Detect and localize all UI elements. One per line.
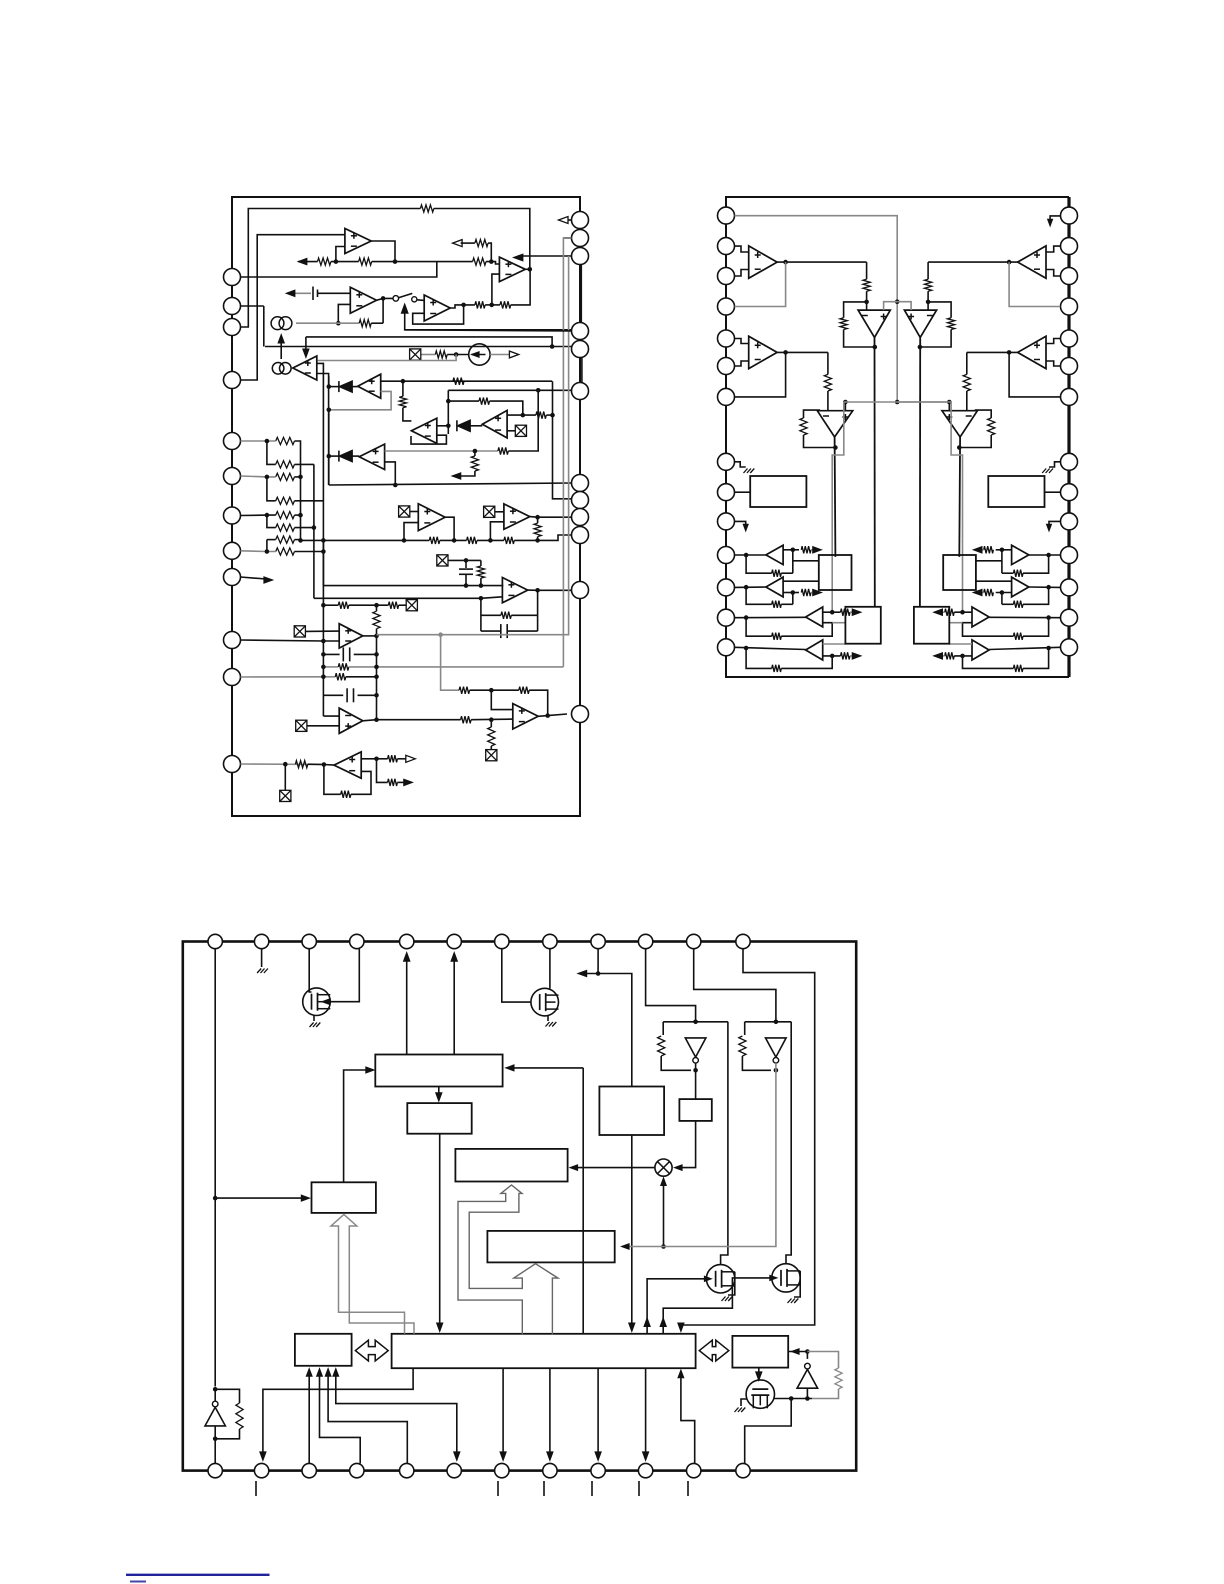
op-amp U8 — [482, 410, 507, 438]
wire pin11 (left) — [735, 554, 766, 556]
pin lead tick — [591, 1481, 593, 1496]
wire fb in — [441, 635, 460, 691]
junction — [265, 549, 270, 554]
IC3 pin T3 — [302, 934, 316, 948]
junction — [957, 445, 962, 450]
op-amp U23 (right) — [1018, 336, 1046, 368]
wire cap to arrow — [292, 292, 311, 294]
wire S1 vert (right) — [1001, 550, 1003, 573]
wire (right) — [978, 592, 984, 594]
wire pin L7 — [241, 514, 276, 516]
arrow A2 — [453, 240, 463, 247]
terminal X8 — [296, 720, 307, 731]
arrow mult-in — [675, 1165, 683, 1171]
arrow B7 — [500, 1452, 506, 1461]
wire pin12 (right) — [1029, 586, 1060, 588]
IC1 pin L12 — [224, 756, 241, 773]
junction — [374, 675, 379, 680]
wire DB to pin B9 — [597, 1368, 599, 1457]
resistor R10 — [453, 378, 464, 385]
resistor R58 (left) — [772, 633, 782, 640]
junction — [789, 1396, 794, 1401]
wire mult bottom — [663, 1180, 665, 1247]
power amp U22 (right) — [904, 310, 936, 337]
wire INV2 gray down — [625, 1063, 776, 1246]
resistor R9 — [435, 351, 447, 358]
wire ref bus — [844, 401, 951, 403]
wire — [465, 574, 467, 585]
junction — [473, 449, 478, 454]
IC3 pin T1 — [208, 934, 222, 948]
wire MB1 down to DB — [631, 1135, 633, 1328]
ground G14 — [788, 1299, 799, 1304]
junction — [693, 1020, 698, 1025]
wire fb — [529, 690, 548, 715]
ground G10 — [257, 969, 268, 974]
wire — [465, 560, 467, 568]
arrow B3 — [306, 1369, 312, 1377]
junction — [895, 400, 900, 405]
ground G11 — [310, 1023, 321, 1028]
wire — [806, 1352, 808, 1359]
arrow mult-P — [570, 1165, 578, 1171]
IC2 pin L11 — [718, 547, 735, 564]
diode D3 — [339, 450, 353, 462]
resistor R39 — [461, 716, 472, 723]
wire DC1 node — [296, 322, 359, 324]
IC2 pin R7 — [1061, 388, 1078, 405]
wire U12 out pin R11 — [528, 589, 572, 591]
junction — [535, 538, 540, 543]
wire pin L1 centre ref — [735, 216, 898, 402]
IC2 pin L3 — [718, 268, 735, 285]
IC1 pin L7 — [224, 507, 241, 524]
junction — [528, 267, 533, 272]
pin lead tick — [687, 1481, 689, 1496]
IC2 pin R13 — [1061, 609, 1078, 626]
IC2 pin R10 — [1061, 513, 1078, 530]
wire — [349, 604, 389, 606]
wire pin13 (left) — [735, 616, 806, 618]
diode D1 — [339, 381, 353, 393]
wire col right2 — [295, 500, 324, 502]
junction — [805, 1396, 810, 1401]
wire U12 - row — [314, 597, 503, 599]
terminal X9 — [486, 750, 497, 761]
wire DB to pin B8 — [549, 1368, 551, 1457]
arrow T9 — [578, 970, 587, 976]
IC3 pin T10 — [638, 934, 652, 948]
wire U4 out — [450, 305, 475, 308]
resistor R57 (right) — [984, 589, 994, 596]
resistor R5 — [475, 240, 488, 247]
wire U23 out (right) — [967, 351, 1018, 353]
op-amp U7 — [411, 418, 436, 443]
resistor R11 — [399, 396, 406, 407]
wire INV4 out — [806, 1388, 808, 1398]
wire res loop — [215, 1389, 239, 1403]
arrow A11 — [406, 755, 416, 762]
resistor R56 (left) — [772, 601, 782, 608]
resistor R55 (left) — [801, 546, 811, 553]
resistor R60 (right) — [1013, 665, 1023, 672]
pin lead tick — [638, 1481, 640, 1496]
wire pin T7 to M2 gate — [502, 949, 531, 1002]
junction — [322, 762, 327, 767]
capacitor C3 — [501, 624, 507, 638]
junction — [947, 400, 952, 405]
wire res loop — [807, 1352, 838, 1369]
op-amp U26 (right) — [1012, 577, 1029, 597]
IC2 pin R8 — [1061, 453, 1078, 470]
wire S2 vert (left) — [792, 593, 794, 605]
wire — [329, 455, 339, 457]
resistor R4 — [473, 258, 486, 265]
arrow B4 — [317, 1369, 323, 1377]
wire pin5 to + (right) — [1046, 339, 1060, 344]
ground G12 — [546, 1022, 557, 1027]
wire pin L2 row — [265, 346, 572, 348]
wire BB1 to pin T6 — [453, 956, 455, 1055]
IC2 pin R14 — [1061, 639, 1078, 656]
arrow A3 — [514, 254, 523, 261]
resistor R20 — [276, 437, 295, 444]
op-amp U2 — [499, 257, 525, 282]
wire S3 loop (left) — [746, 618, 772, 637]
op-amp U25 (right) — [1012, 545, 1029, 564]
resistor R35 — [388, 602, 398, 609]
wire INV1 top row — [663, 1021, 728, 1023]
wire pin T11 to INV2 — [694, 949, 776, 1022]
junction — [693, 1068, 698, 1073]
resistor R58 (right) — [1013, 633, 1023, 640]
wire U9 + row — [385, 450, 498, 452]
wire U3 - — [338, 304, 350, 323]
IC1 pin L1 — [224, 269, 241, 286]
wire U10 - — [404, 523, 418, 541]
IC3 pin B12 — [736, 1463, 750, 1477]
wire — [324, 764, 334, 767]
IC1 pin R2 — [572, 230, 589, 247]
wire col — [267, 477, 276, 501]
wire S1 vert (left) — [792, 550, 794, 573]
wire pin T2 — [261, 949, 263, 967]
resistor R31 — [534, 523, 541, 536]
op-amp U11 — [504, 504, 530, 529]
terminal X5 — [437, 555, 448, 566]
wire SB1 to BB1 — [344, 1070, 371, 1182]
IC1 pin R9 — [572, 509, 589, 526]
wire + to ref bus (right) — [948, 402, 950, 411]
wire — [284, 764, 286, 790]
IC3 pin T6 — [447, 934, 461, 948]
wire DB to M3 gate — [647, 1279, 706, 1334]
arrow T6 — [451, 953, 457, 962]
wire S4 out row (left) — [823, 655, 841, 657]
junction — [791, 548, 796, 553]
junction — [374, 693, 379, 698]
op-amp U1 — [345, 229, 371, 254]
wire SEC to pin B4 — [320, 1370, 361, 1464]
IC3 pin B2 — [254, 1463, 268, 1477]
wire U8 - — [507, 430, 515, 432]
wire fb (right) — [975, 410, 992, 418]
IC2 pin R11 — [1061, 547, 1078, 564]
IC3 pin B11 — [687, 1463, 701, 1477]
capacitor C2 — [459, 569, 473, 574]
arrow pin10 (right) — [1047, 524, 1052, 531]
IC3 outline — [183, 942, 856, 1471]
wire — [346, 676, 377, 678]
junction — [265, 475, 270, 480]
wire pin L3 to feedback — [241, 209, 421, 328]
arrow B5 — [325, 1369, 331, 1377]
junction — [298, 538, 303, 543]
wire S1 to B2 (left) — [793, 560, 819, 562]
wire diode node vert — [447, 390, 449, 434]
resistor R29 — [467, 537, 477, 544]
resistor R22 — [276, 473, 295, 480]
arrow into SB1 — [301, 1195, 309, 1201]
wire pin13 (right) — [989, 616, 1060, 618]
wire CS1 out — [490, 354, 511, 356]
block Q — [487, 1231, 614, 1263]
op-amp U5 — [293, 356, 317, 380]
IC2 pin R9 — [1061, 484, 1078, 501]
resistor R72 — [236, 1403, 243, 1429]
IC3 pin B3 — [302, 1463, 316, 1477]
wire — [448, 559, 481, 561]
wire — [470, 689, 519, 691]
wire node — [328, 376, 330, 386]
wire U11 - — [490, 522, 504, 541]
arrow T5 — [404, 953, 410, 962]
junction — [461, 303, 466, 308]
wire M5 row — [775, 1398, 813, 1400]
resistor R51 (left) — [840, 318, 847, 330]
resistor R44 — [341, 791, 351, 798]
IC3 pin T2 — [254, 934, 268, 948]
wire — [488, 243, 491, 262]
IC1 outline — [232, 197, 580, 816]
arrow T12-DB — [678, 1323, 684, 1332]
junction — [489, 303, 494, 308]
wire — [397, 781, 404, 783]
wire U7 hook — [411, 435, 446, 444]
wire row667 gray — [349, 666, 564, 668]
MOSFET M1 — [303, 988, 331, 1016]
wire (right) — [966, 391, 968, 411]
wire — [308, 763, 324, 765]
resistor R24 — [276, 512, 295, 519]
wire (left) — [866, 291, 868, 310]
wire DB to M4 gate — [663, 1278, 771, 1334]
block B1 (left) — [750, 476, 806, 507]
resistor R40 — [459, 687, 470, 694]
IC2 pin R12 — [1061, 579, 1078, 596]
junction — [545, 713, 550, 718]
arrow into Q — [622, 1244, 630, 1250]
arrow A4 — [286, 290, 295, 296]
wire S2 vert (right) — [1001, 593, 1003, 605]
wire pin R3 ctl — [518, 255, 572, 257]
wire pin T9 — [597, 949, 599, 974]
wire (left) — [827, 352, 829, 374]
wire S2 to B2 (right) — [976, 580, 1012, 582]
wire — [480, 578, 482, 586]
resistor R56 (right) — [1013, 601, 1023, 608]
arrow into BB1 r — [506, 1065, 514, 1071]
arrow A8 — [509, 351, 518, 358]
wire S1 to B2 (right) — [976, 560, 1002, 562]
wire fb row — [448, 400, 479, 402]
IC2 pin L10 — [718, 513, 735, 530]
wire + to centre (right) — [897, 302, 911, 310]
wire mirror arrow — [280, 338, 282, 359]
junction — [464, 583, 469, 588]
wire S4 to B3 (left) — [823, 643, 846, 645]
wire — [329, 386, 339, 388]
junction — [783, 260, 788, 265]
resistor R36 — [373, 611, 380, 629]
wire — [490, 401, 523, 415]
wire pin B3 to SEC — [308, 1370, 310, 1463]
wire T9 to MB1 — [583, 974, 632, 1087]
wire to pin R6 — [448, 389, 571, 391]
resistor R52 (left) — [824, 374, 831, 391]
arrow B11 — [678, 1370, 684, 1378]
wire S3 loop up (left) — [781, 623, 832, 637]
junction — [744, 553, 749, 558]
wire pin T12 route — [681, 949, 815, 1330]
wire gray return 1 — [563, 238, 571, 667]
junction — [381, 296, 386, 301]
block RB — [732, 1336, 788, 1368]
resistor R55 (right) — [984, 546, 994, 553]
wire U8 out — [507, 414, 536, 416]
junction — [327, 408, 332, 413]
junction — [1046, 615, 1051, 620]
wire fb left — [480, 598, 482, 631]
block B3 (right) — [914, 607, 949, 644]
resistor R61 (right) — [945, 652, 955, 659]
op-amp U28 (left) — [806, 640, 823, 660]
wire arrow to R2 — [298, 261, 317, 263]
IC3 pin T12 — [736, 934, 750, 948]
wire U16 fb — [324, 765, 341, 795]
junction — [744, 615, 749, 620]
IC2 right edge — [1067, 197, 1070, 677]
arrow pin R1 — [559, 217, 569, 224]
junction — [1007, 260, 1012, 265]
diode D2 — [457, 420, 471, 432]
wire pin L9 — [241, 577, 267, 579]
wire — [397, 758, 406, 760]
IC1 pin R10 — [572, 527, 589, 544]
arrow S4 (left) — [852, 653, 861, 659]
IC1 pin R5 — [572, 341, 589, 358]
junction — [393, 483, 398, 488]
IC1 pin R1 — [572, 212, 589, 229]
wire S2 out row (right) — [996, 592, 1012, 594]
junction — [1000, 590, 1005, 595]
arrow S1 (right) — [973, 547, 982, 553]
junction — [213, 1387, 218, 1392]
wire — [358, 694, 377, 696]
resistor R41 — [519, 687, 529, 694]
inverter INV2 — [766, 1038, 787, 1063]
wire to U7 tip — [403, 408, 412, 421]
wire pin T3 gate — [309, 949, 311, 992]
resistor R46 — [388, 779, 398, 786]
IC3 pin B9 — [591, 1463, 605, 1477]
junction — [479, 596, 484, 601]
op-amp U9 — [359, 444, 384, 469]
wire — [377, 758, 388, 760]
wire res loop — [812, 1389, 839, 1399]
wire U6 hook — [329, 391, 391, 409]
arrow S4 (right) — [934, 653, 943, 659]
resistor R15 — [471, 456, 478, 471]
wire U13 out gray — [377, 634, 441, 636]
footer rule 2 — [130, 1581, 146, 1583]
wire pin L2 — [241, 305, 264, 307]
junction — [321, 675, 326, 680]
wire col — [267, 441, 276, 464]
terminal X7 — [294, 626, 305, 637]
junction — [805, 1349, 810, 1354]
wire INV2 right to M4 — [786, 1022, 791, 1264]
op-amp U23 (left) — [749, 336, 777, 368]
wire S3 loop (right) — [1023, 618, 1049, 637]
wire — [458, 471, 475, 476]
arrow into BB1 l — [366, 1067, 374, 1073]
resistor R38 — [335, 673, 346, 680]
wire cap row2 — [323, 694, 343, 696]
wire U15 + — [491, 690, 513, 709]
junction — [536, 388, 541, 393]
wire — [481, 630, 501, 632]
junction — [374, 652, 379, 657]
wire U2 out — [525, 268, 530, 270]
resistor R37 — [338, 663, 349, 670]
wire — [377, 759, 388, 783]
op-amp U6 — [358, 374, 381, 398]
current source arrow line — [472, 354, 486, 356]
IC3 pin T7 — [495, 934, 509, 948]
MOSFET M4 — [772, 1264, 800, 1292]
wire fb (right) — [928, 302, 951, 318]
junction — [454, 352, 459, 357]
junction — [283, 762, 288, 767]
junction — [550, 413, 555, 418]
capacitor C5 — [347, 688, 353, 702]
IC2 pin L14 — [718, 639, 735, 656]
wire — [485, 304, 500, 306]
block BB1 — [375, 1055, 502, 1087]
wire — [537, 517, 539, 523]
wire out to pin4 (left) — [735, 262, 786, 306]
resistor R25 — [276, 524, 295, 531]
wire pin11 (right) — [1029, 554, 1060, 556]
wire pin R4 row — [405, 330, 572, 331]
arrow M1 gate — [322, 999, 329, 1004]
wire S2 loop (left) — [746, 587, 772, 604]
wire pin R1 stub — [1050, 216, 1060, 223]
wire to SB1 — [215, 1197, 306, 1199]
wire bus — [372, 261, 473, 263]
resistor R12 — [479, 398, 490, 405]
